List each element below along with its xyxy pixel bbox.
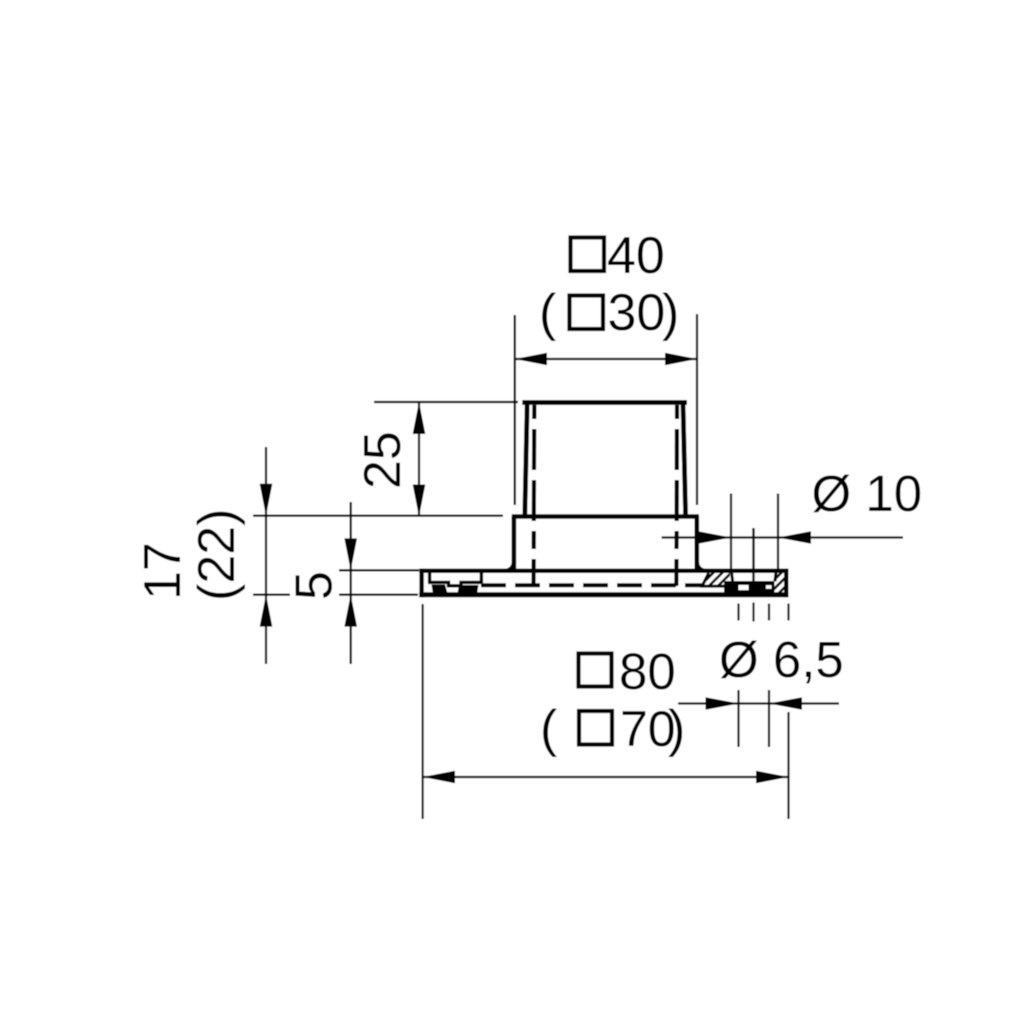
section recess bottom line right side [700, 585, 730, 588]
left hole countersink pocket left edge [428, 573, 431, 584]
dim 5 arrow down (tip 570.4) [344, 538, 357, 570]
tube right wall [683, 403, 686, 517]
tube hidden inner wall right (dashed) [674, 405, 679, 586]
svg-text:): ) [662, 284, 679, 342]
collar left wall [512, 517, 517, 570]
dim 17 arrow up (tip at 594.6) [260, 595, 273, 627]
dim dia6.5 extension line left [737, 690, 739, 747]
section hatch patch right of hole [760, 568, 808, 599]
left hole hidden marks 2 [458, 585, 479, 594]
dim 5 arrow up (tip 594.6) [344, 595, 357, 627]
dim sq80 arrow left [423, 771, 455, 784]
dim dia6.5 arrow left-pointing [769, 697, 802, 710]
dim 17 dimension line [265, 447, 267, 664]
dim dia10 extension line right [777, 494, 779, 570]
section hatch patch left of hole [694, 570, 743, 592]
label sq40 square [571, 238, 605, 272]
dim 25 dimension line [418, 402, 420, 517]
svg-text:Ø 6,5: Ø 6,5 [719, 631, 844, 688]
dim 5 top extension line [339, 569, 419, 571]
hole centreline above base [752, 528, 754, 593]
collar left wall fillet [504, 560, 514, 571]
dim dia10 dimension line [662, 536, 904, 538]
svg-text:): ) [668, 700, 685, 758]
countersink white speck right [766, 585, 772, 589]
base plate top edge [419, 569, 788, 573]
svg-text:17: 17 [134, 542, 192, 600]
dim 25 / 17 shared extension line [253, 515, 503, 517]
base plate left edge [419, 569, 423, 598]
svg-text:5: 5 [286, 571, 344, 600]
hole centreline below base [752, 603, 754, 622]
dim dia6.5 arrow right-pointing [706, 697, 739, 710]
dim dia10 extension line left [730, 494, 732, 570]
countersink cone right wall [775, 573, 776, 582]
recess slant below hatch [725, 587, 733, 594]
hidden recess line (dashed) [481, 583, 703, 587]
dim sq40 arrow left [515, 353, 547, 366]
tube left wall [525, 403, 527, 517]
svg-text:(: ( [539, 284, 557, 342]
dim dia10 arrow left-pointing [778, 531, 811, 544]
label sq30 square [570, 296, 604, 330]
collar right wall [694, 517, 699, 570]
left hole hidden marks [432, 585, 449, 596]
dim sq40 arrow right [665, 353, 697, 366]
dim dia6.5 extension line right [768, 690, 770, 747]
left hole countersink pocket right edge [480, 573, 483, 584]
tube hidden inner wall left (dashed) [531, 405, 536, 586]
dim 25 arrow down [413, 485, 426, 517]
hatch patch slanted left boundary [702, 573, 708, 586]
countersink white speck left [739, 585, 749, 590]
dia6.5 ext stub left below base [737, 604, 739, 621]
dim 5 bottom extension line [339, 593, 418, 595]
dim sq40 extension line right [696, 314, 698, 505]
svg-text:(: ( [540, 700, 558, 758]
svg-text:30: 30 [608, 284, 666, 342]
base plate right edge [784, 569, 788, 598]
dim sq80 arrow right [756, 771, 789, 784]
dim 25 top extension line [374, 401, 518, 403]
label sq70 square [579, 711, 612, 745]
dim sq40 extension line left [514, 315, 516, 505]
countersunk hole section dark region [724, 581, 775, 593]
base plate bottom edge [419, 592, 788, 597]
dim 25 arrow up [413, 402, 426, 434]
dim 17 bottom tick [253, 593, 290, 595]
collar top edge [512, 514, 699, 519]
dia6.5 ext stub right below base [768, 604, 770, 621]
svg-text:40: 40 [607, 227, 665, 285]
dim sq80 extension line right [787, 712, 789, 819]
dim 5 dimension line [350, 502, 352, 664]
dim dia10 arrow right-pointing [698, 531, 731, 544]
svg-text:25: 25 [354, 431, 412, 489]
svg-text:Ø 10: Ø 10 [812, 465, 923, 522]
countersink cone left wall [732, 573, 733, 582]
sq80 right ext stub below base [787, 604, 789, 621]
tube top edge [522, 400, 687, 405]
label sq80 square [579, 654, 612, 687]
svg-text:(22): (22) [188, 509, 246, 601]
dim sq40 dimension line [515, 358, 697, 360]
dim 17 arrow down (tip at 515.7) [260, 484, 273, 516]
dim sq80 dimension line [423, 776, 789, 778]
svg-text:80: 80 [619, 643, 676, 700]
left hole countersink pocket bottom [428, 582, 483, 585]
dim sq80 extension line left [422, 604, 424, 819]
collar right wall fillet [697, 560, 707, 571]
dim dia6.5 dimension line [678, 702, 839, 704]
